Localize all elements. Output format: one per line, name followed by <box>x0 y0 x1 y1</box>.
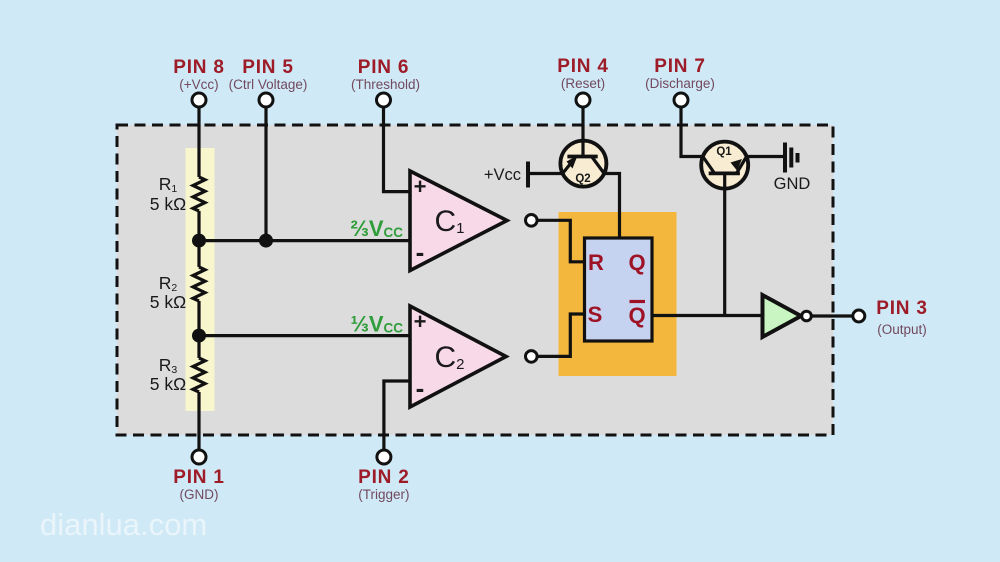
wire: inverter to PIN 3 <box>811 314 852 317</box>
svg-text:PIN 5: PIN 5 <box>242 57 294 78</box>
wire: Q2 collector to flip-flop top <box>604 174 619 239</box>
svg-text:(Output): (Output) <box>877 322 927 337</box>
pin terminal PIN 3 <box>853 310 865 322</box>
svg-text:5 kΩ: 5 kΩ <box>150 374 186 394</box>
junction A <box>192 234 206 248</box>
comparator C1 <box>410 171 507 271</box>
pin terminal PIN 4 <box>576 93 590 107</box>
svg-text:+: + <box>414 174 427 199</box>
pin terminal PIN 1 <box>192 450 206 464</box>
wire: 1/3 Vcc rail <box>199 334 410 337</box>
junction B <box>192 329 206 343</box>
svg-text:(Ctrl Voltage): (Ctrl Voltage) <box>229 77 308 92</box>
svg-text:Q: Q <box>628 303 645 328</box>
svg-text:PIN 7: PIN 7 <box>654 56 706 77</box>
svg-text:5 kΩ: 5 kΩ <box>150 292 186 312</box>
svg-text:PIN 1: PIN 1 <box>173 467 225 488</box>
pin terminal PIN 5 <box>259 93 273 107</box>
wire: Q1 emitter to GND <box>747 155 785 158</box>
svg-text:+: + <box>414 309 427 334</box>
wire: Q1 base down to output line <box>723 173 726 315</box>
svg-text:PIN 4: PIN 4 <box>557 56 609 77</box>
inverter bubble <box>802 311 812 321</box>
C1 output bubble <box>526 215 538 227</box>
flip-flop U1 (SR latch) <box>585 238 653 341</box>
Q1 base bar <box>709 171 740 175</box>
svg-text:(Discharge): (Discharge) <box>645 76 715 91</box>
wire: PIN 4 to Q2 base <box>581 107 584 157</box>
svg-text:+Vcc: +Vcc <box>484 166 521 184</box>
Q1 collector leg <box>703 157 714 173</box>
+Vcc supply to Q2 emitter <box>526 162 530 188</box>
svg-text:(GND): (GND) <box>180 487 219 502</box>
ground symbol GND <box>783 143 787 173</box>
svg-text:(+Vcc): (+Vcc) <box>179 77 218 92</box>
svg-text:5 kΩ: 5 kΩ <box>150 194 186 214</box>
resistor R2 <box>193 267 205 301</box>
wire: PIN 6 threshold to C1 + <box>384 107 411 192</box>
wire: C1 out to R input <box>537 220 584 261</box>
svg-text:PIN 3: PIN 3 <box>876 298 928 319</box>
wire: PIN 2 trigger to C2 - <box>384 381 410 450</box>
Q2 base bar <box>567 155 597 159</box>
output inverter <box>763 295 802 337</box>
pin terminal PIN 7 <box>674 93 688 107</box>
svg-text:Q1: Q1 <box>716 146 732 158</box>
resistor R1 <box>193 177 205 211</box>
wire: C2 out to S input <box>537 314 584 356</box>
wire: R2 to junction B <box>197 301 200 358</box>
svg-text:Q: Q <box>628 250 645 275</box>
resistor R3 <box>193 358 205 392</box>
Q2 emitter (arrow toward base) <box>563 158 575 174</box>
wire: Q-bar to inverter <box>652 314 763 317</box>
voltage divider highlight strip <box>186 148 215 411</box>
Q2 collector leg <box>592 157 604 174</box>
wire: PIN 5 down to divider <box>264 107 267 241</box>
svg-text:GND: GND <box>774 175 811 193</box>
comparator C2 <box>410 306 506 407</box>
svg-text:(Threshold): (Threshold) <box>351 77 420 92</box>
transistor Q1 (discharge, NPN) <box>701 142 748 189</box>
svg-text:PIN 2: PIN 2 <box>358 467 410 488</box>
svg-text:Q2: Q2 <box>575 173 590 185</box>
Q1 emitter leg (arrow out) <box>737 157 747 173</box>
wire: PIN 8 to R1 <box>197 107 200 177</box>
svg-text:(Reset): (Reset) <box>561 76 605 91</box>
wire: 2/3 Vcc rail <box>199 239 410 242</box>
pin terminal PIN 8 <box>192 93 206 107</box>
flip-flop highlight <box>559 212 677 376</box>
C2 output bubble <box>526 351 538 363</box>
transistor Q2 (reset, PNP) <box>560 141 606 187</box>
svg-text:S: S <box>588 302 603 327</box>
svg-text:-: - <box>416 237 425 267</box>
IC boundary (555 internal block, dashed) <box>117 125 833 435</box>
svg-text:PIN 6: PIN 6 <box>358 57 410 78</box>
svg-text:-: - <box>416 373 425 403</box>
svg-text:PIN 8: PIN 8 <box>173 57 225 78</box>
wire: R1 to junction A <box>197 211 200 267</box>
svg-text:dianlua.com: dianlua.com <box>40 507 207 542</box>
wire: PIN 7 to Q1 collector <box>681 107 703 157</box>
svg-text:R: R <box>588 250 604 275</box>
pin terminal PIN 6 <box>377 93 391 107</box>
junction PIN5 tap <box>259 234 273 248</box>
svg-text:(Trigger): (Trigger) <box>358 487 409 502</box>
wire: R3 to PIN 1 <box>197 392 200 450</box>
pin terminal PIN 2 <box>377 450 391 464</box>
